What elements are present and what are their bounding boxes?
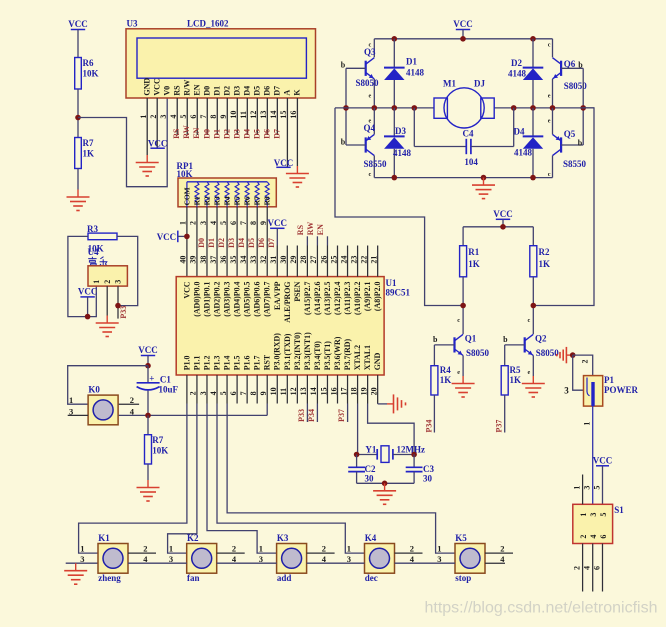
svg-text:(A12)P2.4: (A12)P2.4 bbox=[333, 281, 342, 315]
svg-text:VCC: VCC bbox=[593, 455, 613, 465]
wire button rail to K2 bbox=[128, 562, 187, 564]
svg-text:23: 23 bbox=[349, 256, 358, 264]
wire Q1 base bbox=[434, 344, 454, 346]
wire button rail to K5 bbox=[395, 562, 456, 564]
ground (LCD pin16) bbox=[296, 166, 298, 174]
svg-text:P1.5: P1.5 bbox=[233, 355, 242, 370]
svg-text:R5: R5 bbox=[233, 196, 242, 205]
svg-text:D2: D2 bbox=[511, 58, 522, 68]
wire Q4 base bbox=[346, 144, 366, 146]
svg-text:(AD7)P0.7: (AD7)P0.7 bbox=[263, 281, 272, 316]
svg-text:b: b bbox=[341, 61, 346, 70]
diode D4 4148 bbox=[532, 108, 534, 136]
svg-text:GND: GND bbox=[373, 352, 382, 370]
svg-text:c: c bbox=[368, 42, 371, 49]
U1 top pin 26 (A13)P2.5 bbox=[326, 246, 328, 277]
svg-text:b: b bbox=[578, 61, 583, 70]
svg-text:12: 12 bbox=[289, 387, 298, 395]
svg-text:4: 4 bbox=[322, 554, 327, 564]
K4 pin2 stub bbox=[395, 552, 423, 554]
svg-text:R6: R6 bbox=[83, 58, 94, 68]
svg-text:P3.4(T0): P3.4(T0) bbox=[313, 341, 322, 371]
transistor Q1 S8050 bbox=[453, 337, 455, 352]
svg-text:6: 6 bbox=[593, 566, 602, 570]
svg-text:3: 3 bbox=[583, 486, 592, 490]
U1 bottom pin 13 P3.3(INT1) bbox=[306, 375, 308, 404]
svg-text:RW: RW bbox=[182, 125, 191, 139]
wire P1 pin2 bbox=[573, 355, 593, 376]
wire Q6 collector bbox=[552, 39, 554, 58]
svg-text:18: 18 bbox=[349, 387, 358, 395]
svg-text:1: 1 bbox=[92, 280, 101, 284]
microcontroller U1 89C51 bbox=[176, 277, 384, 375]
svg-text:P34: P34 bbox=[307, 409, 316, 422]
capacitor C2 30 bbox=[356, 455, 358, 468]
K0 pin3 stub bbox=[68, 414, 88, 416]
transistor Q3 S8050 bbox=[365, 61, 367, 76]
RP1 pin 1 wire to U1 bbox=[186, 207, 188, 277]
svg-text:1: 1 bbox=[437, 544, 441, 554]
LCD pin 14 D7 bbox=[276, 98, 278, 135]
svg-text:4148: 4148 bbox=[508, 69, 527, 79]
svg-text:K5: K5 bbox=[455, 533, 467, 543]
svg-text:2: 2 bbox=[410, 544, 414, 554]
resistor R7 1K bbox=[75, 138, 82, 169]
svg-text:P3.0(RXD): P3.0(RXD) bbox=[273, 333, 282, 370]
svg-text:R4: R4 bbox=[222, 196, 231, 205]
svg-text:LCD_1602: LCD_1602 bbox=[187, 19, 229, 29]
wire base tie Q6/Q5 bbox=[582, 68, 584, 145]
svg-text:S8550: S8550 bbox=[364, 159, 388, 169]
svg-text:27: 27 bbox=[309, 256, 318, 264]
LCD module U3 LCD_1602 bbox=[126, 29, 316, 98]
LCD pin 9 D2 bbox=[226, 98, 228, 135]
svg-text:e: e bbox=[368, 93, 371, 100]
svg-text:6: 6 bbox=[229, 221, 238, 225]
svg-text:4148: 4148 bbox=[393, 148, 412, 158]
svg-text:D5: D5 bbox=[247, 238, 256, 248]
svg-text:stop: stop bbox=[455, 573, 471, 583]
wire button rail to K3 bbox=[217, 562, 277, 564]
svg-text:12MHz: 12MHz bbox=[397, 444, 426, 454]
ground (U1 GND pin) bbox=[387, 403, 394, 405]
svg-text:D3: D3 bbox=[232, 129, 241, 139]
svg-text:e: e bbox=[548, 118, 551, 125]
svg-text:28: 28 bbox=[299, 256, 308, 264]
svg-text:3: 3 bbox=[347, 554, 351, 564]
wire U4 pin2 to ground bbox=[106, 286, 108, 315]
power VCC (U1 pin31 EA/VPP) bbox=[270, 227, 284, 229]
svg-text:6: 6 bbox=[189, 115, 198, 119]
U1 bottom pin 4 P1.3 bbox=[216, 375, 218, 404]
node V0 junction bbox=[75, 115, 81, 121]
svg-text:34: 34 bbox=[239, 256, 248, 264]
svg-text:XTAL2: XTAL2 bbox=[353, 345, 362, 370]
node C1- junction bbox=[145, 413, 151, 419]
svg-text:5: 5 bbox=[219, 391, 228, 395]
svg-text:R8: R8 bbox=[263, 196, 272, 205]
svg-text:U3: U3 bbox=[127, 19, 138, 29]
power VCC (H-bridge top) bbox=[456, 29, 470, 31]
svg-text:D5: D5 bbox=[253, 86, 262, 96]
node mid rail Q5 bbox=[550, 105, 556, 111]
svg-text:S1: S1 bbox=[614, 505, 624, 515]
svg-text:1K: 1K bbox=[440, 375, 452, 385]
LCD pin 12 D5 bbox=[256, 98, 258, 135]
svg-text:D3: D3 bbox=[227, 238, 236, 248]
svg-text:EN: EN bbox=[192, 127, 201, 138]
svg-text:39: 39 bbox=[189, 256, 198, 264]
svg-text:2: 2 bbox=[322, 544, 326, 554]
wire P1.4 to K5 bbox=[227, 404, 455, 554]
svg-text:P1: P1 bbox=[604, 375, 614, 385]
node top rail D1 bbox=[392, 36, 398, 42]
svg-text:PSEN: PSEN bbox=[293, 281, 302, 301]
svg-text:10K: 10K bbox=[152, 446, 168, 456]
svg-text:(AD1)P0.1: (AD1)P0.1 bbox=[202, 281, 211, 316]
svg-text:1K: 1K bbox=[539, 259, 551, 269]
ground (LCD pin1) bbox=[146, 155, 148, 163]
svg-text:D4: D4 bbox=[243, 86, 252, 96]
svg-text:C1: C1 bbox=[160, 374, 171, 384]
svg-text:VCC: VCC bbox=[138, 345, 158, 355]
svg-text:33: 33 bbox=[249, 256, 258, 264]
wire U4 pin3 net P33 bbox=[117, 286, 119, 319]
ground (H-bridge) bbox=[483, 178, 485, 186]
svg-text:R1: R1 bbox=[468, 247, 479, 257]
power VCC (LCD pin15) bbox=[276, 166, 290, 168]
svg-text:3: 3 bbox=[259, 554, 263, 564]
svg-text:1K: 1K bbox=[510, 375, 522, 385]
svg-text:25: 25 bbox=[329, 256, 338, 264]
svg-text:14: 14 bbox=[309, 387, 318, 395]
wire button rail to K4 bbox=[307, 562, 365, 564]
wire P1.0 to K1 bbox=[79, 404, 187, 554]
svg-text:R4: R4 bbox=[440, 365, 451, 375]
wire Q1 collector to Q3/Q4 bases bbox=[335, 108, 463, 306]
svg-text:P1.6: P1.6 bbox=[243, 355, 252, 370]
svg-text:9: 9 bbox=[259, 391, 268, 395]
net label RS (U1 pin 28) bbox=[306, 236, 308, 245]
svg-text:b: b bbox=[433, 335, 438, 344]
svg-text:R3: R3 bbox=[212, 196, 221, 205]
svg-text:3: 3 bbox=[199, 391, 208, 395]
button K0 bbox=[88, 395, 118, 425]
svg-text:R7: R7 bbox=[152, 435, 163, 445]
svg-text:VCC: VCC bbox=[453, 19, 473, 29]
RP1 pin 4 wire to U1 bbox=[216, 207, 218, 277]
svg-text:20: 20 bbox=[369, 387, 378, 395]
RP1 element R3 bbox=[215, 182, 219, 207]
U1 top pin 31 EA/VPP bbox=[276, 246, 278, 277]
svg-text:3: 3 bbox=[199, 221, 208, 225]
svg-text:(A10)P2.2: (A10)P2.2 bbox=[353, 281, 362, 315]
svg-text:D0: D0 bbox=[202, 129, 211, 139]
svg-text:11: 11 bbox=[239, 111, 248, 119]
diode D1 4148 bbox=[393, 39, 395, 68]
svg-text:D3: D3 bbox=[232, 86, 241, 96]
LCD pin 13 D6 bbox=[266, 98, 268, 135]
svg-text:RS: RS bbox=[172, 85, 181, 96]
power VCC (RP1 COM) bbox=[177, 231, 179, 243]
svg-text:VCC: VCC bbox=[78, 286, 98, 296]
svg-text:3: 3 bbox=[80, 554, 84, 564]
S1 pin6 bbox=[602, 544, 604, 592]
RP1 element R7 bbox=[255, 182, 259, 207]
svg-text:(A11)P2.3: (A11)P2.3 bbox=[343, 281, 352, 314]
button K5 stop bbox=[455, 544, 485, 574]
svg-text:GND: GND bbox=[142, 78, 151, 96]
svg-text:36: 36 bbox=[219, 256, 228, 264]
net label EN (U1 pin 26) bbox=[326, 236, 328, 245]
svg-text:S8050: S8050 bbox=[536, 348, 560, 358]
ground (crystal) bbox=[384, 483, 386, 491]
node base tie right bbox=[580, 105, 586, 111]
svg-text:c: c bbox=[527, 317, 530, 324]
connector P1 POWER bbox=[584, 376, 603, 407]
svg-text:3: 3 bbox=[589, 513, 598, 517]
LCD pin 7 D0 bbox=[206, 98, 208, 135]
svg-text:2: 2 bbox=[103, 280, 112, 284]
RP1 pin 7 wire to U1 bbox=[246, 207, 248, 277]
svg-text:13: 13 bbox=[299, 387, 308, 395]
wire U1 GND pin to ground bbox=[377, 403, 379, 405]
svg-text:D4: D4 bbox=[242, 129, 251, 139]
svg-text:K1: K1 bbox=[98, 533, 110, 543]
svg-text:D1: D1 bbox=[406, 57, 417, 67]
svg-text:V0: V0 bbox=[162, 86, 171, 96]
svg-text:Y1: Y1 bbox=[365, 444, 376, 454]
svg-text:16: 16 bbox=[329, 387, 338, 395]
svg-text:P3.3(INT1): P3.3(INT1) bbox=[303, 332, 312, 370]
U1 bottom pin 9 RST bbox=[266, 375, 268, 404]
svg-text:Q2: Q2 bbox=[535, 334, 547, 344]
K0 pin2 stub bbox=[119, 403, 139, 405]
svg-text:D1: D1 bbox=[207, 238, 216, 248]
power VCC (C1/K0) bbox=[141, 355, 155, 357]
svg-text:(AD0)P0.0: (AD0)P0.0 bbox=[192, 281, 201, 316]
svg-text:10K: 10K bbox=[83, 69, 99, 79]
svg-text:Q3: Q3 bbox=[364, 47, 376, 57]
svg-text:1: 1 bbox=[259, 544, 263, 554]
svg-text:11: 11 bbox=[279, 388, 288, 396]
wire VCC rail R1-R2 bbox=[463, 226, 533, 228]
power VCC (U4 pin1) bbox=[80, 296, 94, 298]
svg-text:S8050: S8050 bbox=[466, 348, 490, 358]
ground (below R7) bbox=[77, 190, 79, 198]
svg-text:P1.2: P1.2 bbox=[202, 355, 211, 370]
svg-text:30: 30 bbox=[279, 256, 288, 264]
ground (button rail) bbox=[66, 562, 98, 564]
svg-text:R5: R5 bbox=[510, 365, 521, 375]
U1 top pin 28 (A15)P2.7 bbox=[306, 246, 308, 277]
svg-text:(AD2)P0.2: (AD2)P0.2 bbox=[213, 281, 222, 316]
svg-text:1: 1 bbox=[80, 544, 84, 554]
U1 bottom pin 5 P1.4 bbox=[226, 375, 228, 404]
wire Q2 base bbox=[505, 344, 525, 346]
svg-text:D6: D6 bbox=[263, 86, 272, 96]
svg-text:+: + bbox=[149, 374, 154, 384]
svg-text:Q4: Q4 bbox=[364, 123, 376, 133]
svg-text:(AD3)P0.3: (AD3)P0.3 bbox=[223, 281, 232, 316]
svg-text:e: e bbox=[548, 93, 551, 100]
svg-text:4: 4 bbox=[232, 554, 237, 564]
svg-text:VCC: VCC bbox=[274, 158, 294, 168]
svg-text:3: 3 bbox=[169, 554, 173, 564]
svg-text:P1.0: P1.0 bbox=[182, 355, 191, 370]
svg-text:29: 29 bbox=[289, 256, 298, 264]
wire node to R7 bbox=[77, 118, 79, 138]
svg-text:4: 4 bbox=[209, 221, 218, 225]
svg-text:POWER: POWER bbox=[604, 385, 639, 395]
U1 bottom pin 14 P3.4(T0) bbox=[316, 375, 318, 404]
capacitor C4 104 bbox=[413, 108, 415, 147]
LCD pin 8 D1 bbox=[216, 98, 218, 135]
connector S1 bbox=[573, 504, 613, 543]
svg-text:K4: K4 bbox=[365, 533, 377, 543]
svg-text:U4: U4 bbox=[88, 247, 99, 257]
svg-text:(A9)P2.1: (A9)P2.1 bbox=[363, 281, 372, 311]
wire P3.7 stub bbox=[347, 404, 349, 423]
svg-text:R2: R2 bbox=[539, 247, 550, 257]
U1 top pin 23 (A10)P2.2 bbox=[357, 246, 359, 277]
svg-text:M1: M1 bbox=[443, 79, 456, 89]
svg-text:12: 12 bbox=[249, 111, 258, 119]
power VCC (R6 top) bbox=[71, 29, 85, 31]
U1 bottom pin 11 P3.1(TXD) bbox=[286, 375, 288, 404]
svg-text:R7: R7 bbox=[253, 196, 262, 205]
svg-text:1: 1 bbox=[347, 544, 351, 554]
svg-text:VCC: VCC bbox=[268, 218, 288, 228]
node Q2 collector bbox=[531, 303, 537, 309]
svg-text:10: 10 bbox=[269, 387, 278, 395]
svg-text:VCC: VCC bbox=[152, 78, 161, 96]
node bottom rail ground bbox=[481, 175, 487, 181]
RP1 pin 5 wire to U1 bbox=[226, 207, 228, 277]
LCD pin2 wire to VCC bbox=[156, 98, 158, 148]
ground (P1) bbox=[566, 354, 572, 356]
button K3 add bbox=[277, 544, 307, 574]
svg-text:P34: P34 bbox=[424, 420, 433, 433]
svg-text:K0: K0 bbox=[88, 384, 100, 394]
LCD pin 6 EN bbox=[196, 98, 198, 135]
svg-text:RS: RS bbox=[172, 128, 181, 139]
K1 pin2 stub bbox=[128, 552, 156, 554]
node P1 ground bbox=[570, 352, 576, 358]
LCD pin16 wire to ground bbox=[296, 98, 298, 166]
wire R6 to node V0 bbox=[77, 89, 79, 118]
svg-text:U1: U1 bbox=[386, 278, 397, 288]
svg-text:Q1: Q1 bbox=[465, 334, 477, 344]
svg-text:(A13)P2.5: (A13)P2.5 bbox=[323, 281, 332, 315]
svg-text:D0: D0 bbox=[202, 86, 211, 96]
RP1 pin 8 wire to U1 bbox=[256, 207, 258, 277]
RP1 element R8 bbox=[265, 182, 269, 207]
svg-text:P33: P33 bbox=[297, 409, 306, 422]
svg-text:5: 5 bbox=[179, 115, 188, 119]
svg-text:2: 2 bbox=[500, 544, 504, 554]
svg-text:P1.7: P1.7 bbox=[253, 355, 262, 370]
svg-text:P37: P37 bbox=[337, 409, 346, 422]
svg-text:5: 5 bbox=[593, 486, 602, 490]
U1 top pin 24 (A11)P2.3 bbox=[347, 246, 349, 277]
svg-text:b: b bbox=[341, 137, 346, 146]
svg-text:7: 7 bbox=[239, 221, 248, 225]
node mid rail D2 bbox=[530, 105, 536, 111]
svg-text:P3.7(RD): P3.7(RD) bbox=[343, 338, 352, 370]
svg-text:19: 19 bbox=[359, 387, 368, 395]
svg-text:(AD4)P0.4: (AD4)P0.4 bbox=[233, 281, 242, 316]
svg-text:38: 38 bbox=[199, 256, 208, 264]
svg-text:D4: D4 bbox=[514, 127, 525, 137]
svg-text:32: 32 bbox=[259, 256, 268, 264]
svg-text:(AD5)P0.5: (AD5)P0.5 bbox=[243, 281, 252, 316]
node mid rail C4 right bbox=[511, 105, 517, 111]
svg-text:P33: P33 bbox=[119, 306, 128, 319]
U1 bottom pin 6 P1.5 bbox=[236, 375, 238, 404]
wire P1 pin1 to S1 pin3 bbox=[592, 406, 594, 504]
svg-text:2: 2 bbox=[579, 535, 588, 539]
wire VCC node to K0 pin1 bbox=[68, 366, 148, 405]
node mid rail D1 bbox=[392, 105, 398, 111]
svg-text:DJ: DJ bbox=[474, 79, 485, 89]
resistor R4 1K bbox=[433, 345, 435, 366]
svg-text:3: 3 bbox=[114, 280, 123, 284]
svg-text:(A14)P2.6: (A14)P2.6 bbox=[313, 281, 322, 315]
wire P3.3 stub bbox=[306, 404, 308, 423]
svg-text:EN: EN bbox=[316, 224, 325, 235]
wire R7 to ground bbox=[147, 464, 149, 480]
svg-text:4: 4 bbox=[143, 554, 148, 564]
svg-text:(A15)P2.7: (A15)P2.7 bbox=[303, 281, 312, 315]
svg-text:P3.1(TXD): P3.1(TXD) bbox=[283, 333, 292, 370]
diode D3 4148 bbox=[393, 108, 395, 136]
svg-text:104: 104 bbox=[464, 157, 478, 167]
svg-text:b: b bbox=[578, 139, 583, 148]
svg-text:2: 2 bbox=[232, 544, 236, 554]
RP1 element R4 bbox=[225, 182, 229, 207]
svg-text:fan: fan bbox=[187, 573, 200, 583]
svg-text:D2: D2 bbox=[222, 86, 231, 96]
svg-text:D0: D0 bbox=[197, 238, 206, 248]
svg-text:C4: C4 bbox=[463, 129, 474, 139]
wire V0 loop to LCD pin3 bbox=[78, 98, 167, 187]
U1 bottom pin 12 P3.2(INT0) bbox=[296, 375, 298, 404]
wire Q2 collector to Q6/Q5 bases bbox=[533, 108, 594, 306]
svg-text:D4: D4 bbox=[237, 238, 246, 248]
wire mid rail right bbox=[494, 107, 594, 109]
RP1 element R1 bbox=[195, 182, 199, 207]
svg-text:zheng: zheng bbox=[98, 573, 121, 583]
svg-text:https://blog.csdn.net/eletroni: https://blog.csdn.net/eletronicfish bbox=[424, 600, 657, 617]
svg-text:4: 4 bbox=[583, 566, 592, 570]
crystal Y1 12MHz bbox=[357, 454, 378, 456]
svg-text:7: 7 bbox=[239, 391, 248, 395]
svg-text:7: 7 bbox=[199, 115, 208, 119]
wire R4 to net P34 bbox=[433, 395, 435, 433]
svg-text:1: 1 bbox=[579, 513, 588, 517]
wire P3.4 stub bbox=[316, 404, 318, 423]
resistor R1 1K bbox=[462, 227, 464, 246]
wire RST down bbox=[266, 404, 268, 416]
node mid rail C4 left bbox=[412, 105, 418, 111]
U1 bottom pin 18 XTAL2 bbox=[357, 375, 359, 404]
transistor Q4 S8550 bbox=[373, 108, 375, 134]
svg-text:P3.6(WR): P3.6(WR) bbox=[333, 336, 342, 370]
svg-text:1: 1 bbox=[69, 395, 73, 405]
svg-text:5: 5 bbox=[219, 221, 228, 225]
svg-text:R/W: R/W bbox=[182, 80, 191, 96]
